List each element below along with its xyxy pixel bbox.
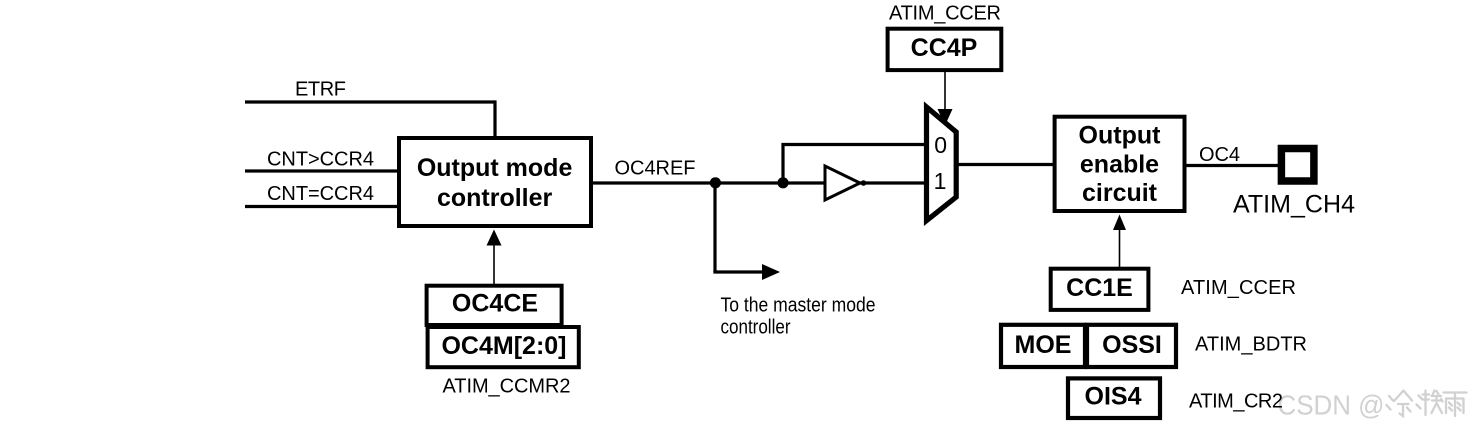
svg-text:MOE: MOE [1015, 331, 1072, 359]
svg-text:ATIM_CCER: ATIM_CCER [889, 2, 1001, 24]
watermark glyph leng [1387, 391, 1413, 417]
wire OC4 to pad [1184, 164, 1281, 167]
svg-text:enable: enable [1080, 150, 1159, 178]
wire ETRF vertical into box top [493, 100, 496, 140]
arrowhead CC1E into output enable circuit [1113, 215, 1126, 231]
wire branch up from node [781, 145, 784, 184]
wire mux output to output enable circuit [954, 163, 1057, 166]
svg-text:ETRF: ETRF [295, 79, 346, 101]
arrowhead to master mode controller [762, 264, 780, 280]
watermark CSDN [1278, 390, 1467, 421]
svg-text:CSDN @: CSDN @ [1278, 390, 1385, 421]
mux selector [927, 107, 957, 221]
arrowhead OC4CE into output mode controller [487, 230, 502, 246]
box OC4M[2:0] [428, 327, 579, 367]
wire CNT=CCR4 [245, 205, 399, 208]
control wire CC1E to output enable circuit [1119, 228, 1121, 268]
svg-text:CNT=CCR4: CNT=CCR4 [267, 183, 374, 205]
box OSSI [1087, 325, 1176, 367]
wire inverter output to mux input 1 [860, 181, 928, 184]
svg-text:ATIM_CCMR2: ATIM_CCMR2 [443, 375, 571, 397]
svg-text:OC4: OC4 [1199, 144, 1240, 166]
box CC1E [1051, 269, 1149, 310]
svg-text:CC4P: CC4P [911, 34, 978, 62]
arrowhead CC4P into mux [938, 109, 953, 126]
box MOE [1001, 325, 1085, 367]
node junction dot right [777, 177, 788, 188]
inverter bubble [861, 180, 867, 186]
pad ATIM_CH4 [1281, 149, 1314, 182]
control wire CC4P to mux [944, 72, 946, 112]
svg-text:CC1E: CC1E [1066, 274, 1133, 302]
svg-text:Output: Output [1079, 122, 1162, 150]
control wire OC4CE to output mode controller [493, 243, 495, 284]
box CC4P [888, 29, 1002, 70]
svg-text:1: 1 [934, 168, 947, 194]
svg-text:ATIM_BDTR: ATIM_BDTR [1195, 333, 1307, 355]
wire top branch to mux input 0 [781, 143, 928, 146]
watermark glyph yu [1444, 393, 1467, 417]
svg-text:controller: controller [437, 184, 553, 212]
svg-text:To the master mode: To the master mode [721, 295, 876, 317]
svg-text:CNT>CCR4: CNT>CCR4 [267, 148, 374, 170]
svg-text:circuit: circuit [1082, 179, 1158, 207]
watermark glyph ning [1417, 391, 1443, 416]
wire branch down to master mode controller [713, 183, 716, 272]
box OIS4 [1068, 378, 1160, 418]
svg-text:ATIM_CR2: ATIM_CR2 [1189, 391, 1283, 413]
svg-text:controller: controller [721, 316, 791, 338]
svg-text:OC4REF: OC4REF [615, 157, 696, 179]
wire ETRF horizontal [245, 100, 495, 103]
svg-text:OIS4: OIS4 [1085, 383, 1142, 411]
wire CNT>CCR4 [245, 169, 399, 172]
svg-text:OSSI: OSSI [1102, 331, 1162, 359]
svg-text:OC4M[2:0]: OC4M[2:0] [441, 332, 566, 360]
box output mode controller [399, 138, 591, 226]
inverter triangle [825, 166, 860, 200]
wire branch right to master mode controller [713, 270, 763, 273]
svg-text:Output mode: Output mode [417, 154, 573, 182]
svg-text:ATIM_CCER: ATIM_CCER [1181, 277, 1296, 299]
svg-text:OC4CE: OC4CE [452, 290, 538, 318]
box output enable circuit [1055, 117, 1185, 211]
box OC4CE [427, 286, 562, 325]
node junction dot left [710, 177, 721, 188]
svg-text:ATIM_CH4: ATIM_CH4 [1233, 191, 1355, 219]
wire OC4REF from controller to inverter [592, 181, 827, 184]
svg-text:0: 0 [934, 132, 947, 158]
